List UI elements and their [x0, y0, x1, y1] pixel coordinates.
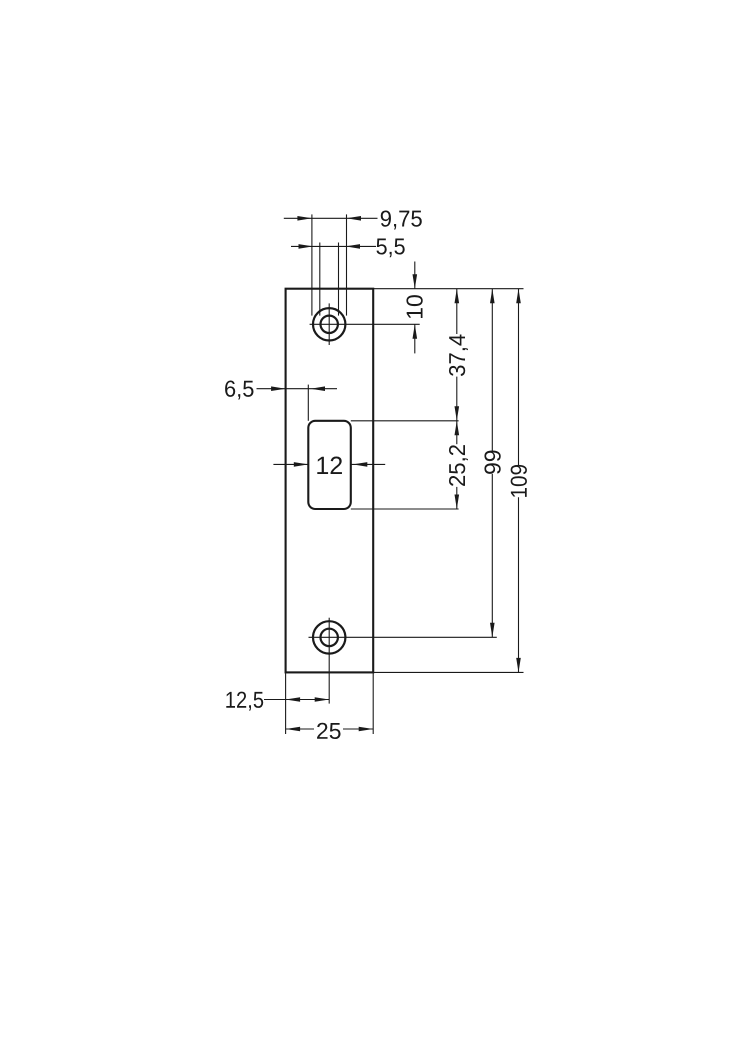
arrow 99 top (points up) — [490, 289, 495, 304]
arrow 5,5 left — [299, 244, 314, 249]
arrow 9,75 right — [347, 216, 362, 221]
dim 25,2 lower shaft — [456, 487, 458, 509]
dim line 6,5 — [257, 388, 338, 390]
bottom hole outer circle — [313, 621, 345, 653]
arrow 99 bottom (points down) — [490, 623, 495, 638]
dim line 5,5 — [291, 245, 376, 247]
arrow 12,5 left — [286, 697, 301, 702]
bottom hole horizontal centerline + extension to dim 99 — [309, 636, 497, 638]
top hole outer circle — [313, 308, 345, 340]
arrow 12,5 right — [315, 697, 330, 702]
dim line 12,5 — [264, 699, 329, 701]
arrow 25 right — [359, 727, 374, 732]
label 37,4 (rotated) — [449, 334, 468, 376]
dim line 9,75 — [284, 217, 378, 219]
arrow 25,2 bottom (points down) — [455, 495, 460, 510]
label 99 (rotated) — [484, 451, 500, 474]
label 6,5 — [225, 381, 253, 400]
arrow 109 top (points up) — [516, 289, 521, 304]
label 10 (rotated) — [406, 295, 422, 318]
extension line 5,5 left — [319, 243, 321, 316]
slot (latch opening) — [308, 421, 351, 509]
dim 10 lower shaft — [414, 324, 416, 353]
arrow 12 left — [294, 462, 309, 467]
dim line 12 right segment — [351, 463, 385, 465]
arrow 10 top (points down) — [413, 274, 418, 289]
extension line plate left edge down (for 12,5 / 25) — [285, 673, 287, 734]
extension line slot left edge up to dim 6,5 — [307, 385, 309, 421]
extension line 9,75 right — [346, 214, 348, 315]
arrow 6,5 left — [271, 386, 286, 391]
arrow 109 bottom (points down) — [516, 658, 521, 673]
label 12,5 — [226, 692, 263, 711]
arrow 9,75 left — [297, 216, 312, 221]
extension line plate bottom right (for 109) — [373, 671, 523, 673]
arrow 37,4 top (points up) — [455, 289, 460, 304]
dim line 12 left segment — [273, 463, 308, 465]
extension line top edge right (for 10/37,4/99/109) — [373, 288, 523, 290]
arrow 5,5 right — [346, 244, 361, 249]
extension line 9,75 left — [311, 214, 313, 315]
extension line slot top right — [351, 420, 459, 422]
label 109 (rotated) — [511, 465, 527, 497]
arrow 25 left — [286, 727, 301, 732]
dim 99 upper shaft — [491, 289, 493, 451]
plate outline — [286, 289, 374, 673]
bottom hole inner circle — [321, 629, 338, 646]
dim line 25 right segment — [343, 728, 373, 730]
arrow 25,2 top (points up) — [455, 421, 460, 436]
label 5,5 — [376, 238, 404, 257]
top hole inner circle — [321, 316, 338, 333]
dim 99 lower shaft — [491, 474, 493, 637]
arrow 6,5 right — [311, 386, 326, 391]
arrow 10 bottom (points up) — [413, 324, 418, 339]
label 25 — [317, 723, 340, 739]
extension line 5,5 right — [338, 243, 340, 316]
arrow 37,4 bottom (points down) — [455, 406, 460, 421]
extension line plate right edge down (for 25) — [372, 673, 374, 734]
bottom hole vertical centerline + extension down to dim 12,5 — [328, 618, 330, 704]
label 9,75 — [381, 210, 422, 229]
dim line 25 left segment — [286, 728, 314, 730]
label 25,2 (rotated) — [449, 445, 468, 486]
dim 37,4 lower shaft — [456, 377, 458, 421]
dim 10 upper shaft — [414, 262, 416, 289]
dim 25,2 upper shaft — [456, 421, 458, 444]
top hole vertical centerline — [328, 303, 330, 345]
dim 109 lower shaft — [518, 497, 520, 672]
top hole horizontal centerline + extension to dim 10 — [310, 323, 420, 325]
arrow 12 right — [353, 462, 368, 467]
dim 37,4 upper shaft — [456, 289, 458, 334]
extension line slot bottom right — [351, 508, 459, 510]
label 12 — [317, 457, 342, 474]
dim 109 upper shaft — [518, 289, 520, 465]
